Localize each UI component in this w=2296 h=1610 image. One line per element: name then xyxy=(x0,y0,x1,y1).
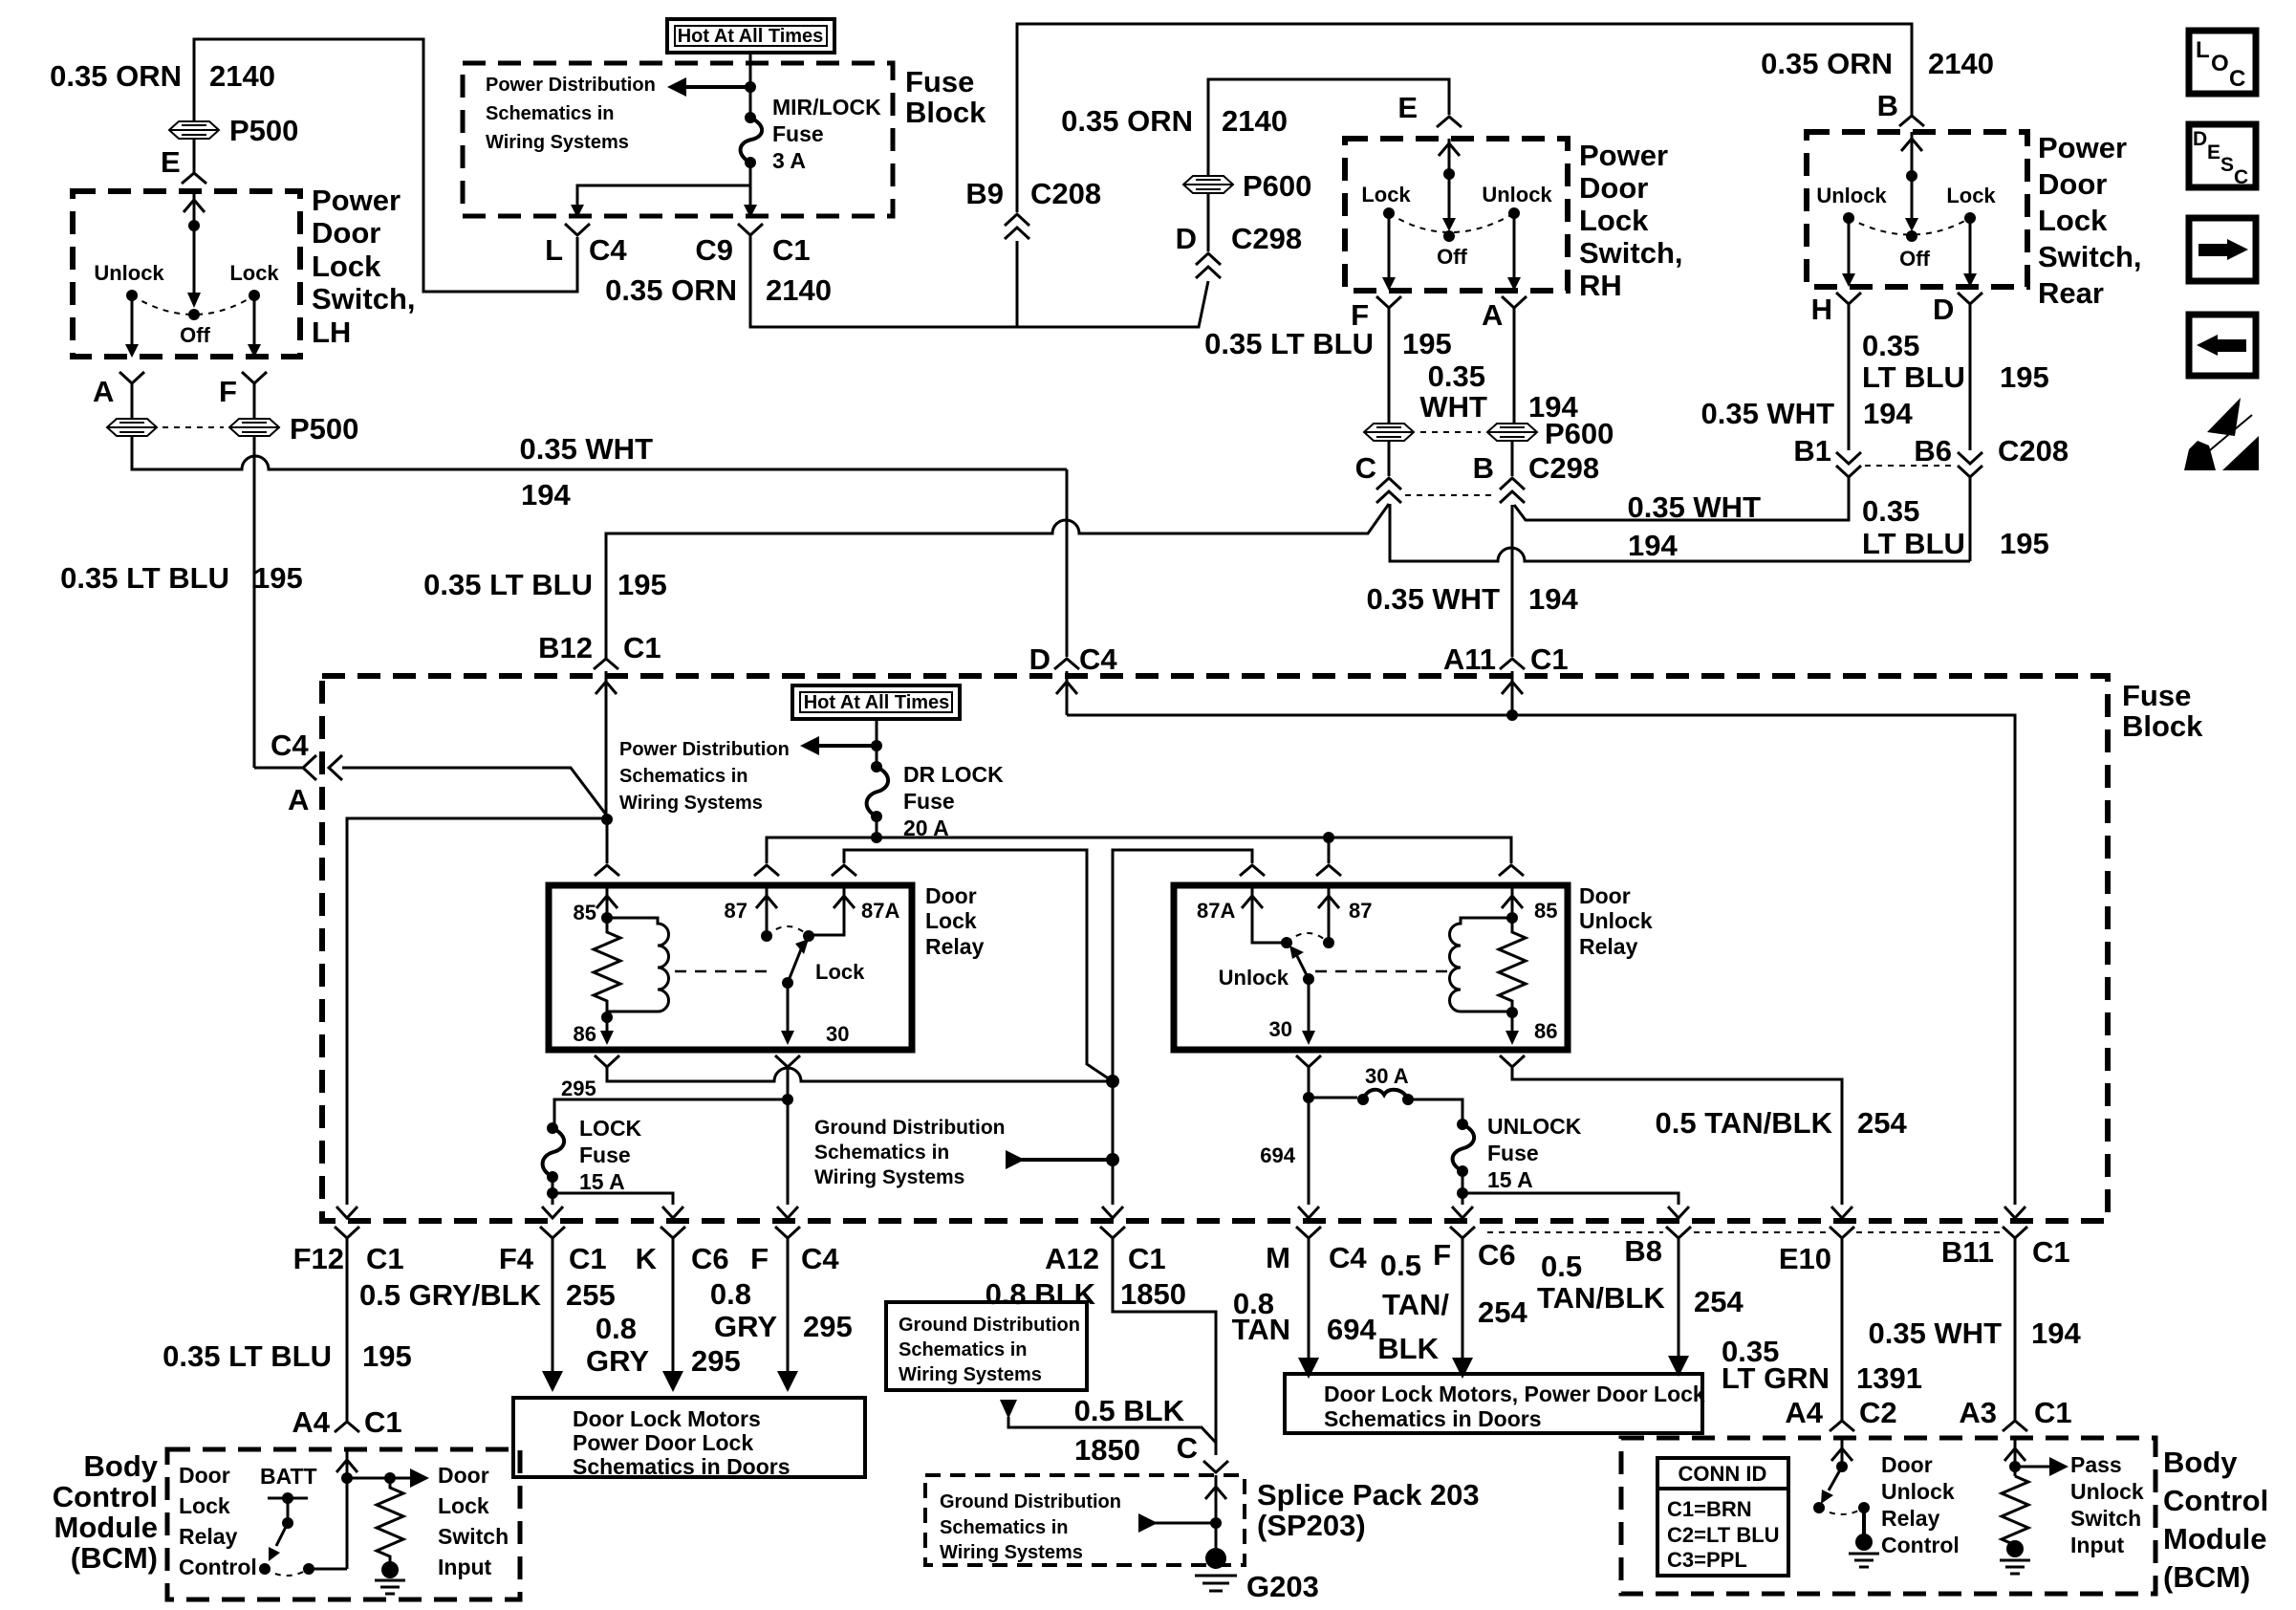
connector double chevron B9/C208 xyxy=(1005,214,1029,239)
svg-text:LT GRN: LT GRN xyxy=(1722,1361,1830,1395)
svg-text:Power: Power xyxy=(2038,131,2127,164)
connector chevron C9/C1 xyxy=(738,224,763,235)
fuse block (upper) dashed box xyxy=(463,63,893,216)
connector chevron B12/C1 xyxy=(594,659,618,669)
connector chevron A11/C1 xyxy=(1500,659,1525,669)
svg-text:Control: Control xyxy=(2163,1484,2268,1517)
svg-text:194: 194 xyxy=(1628,529,1678,562)
svg-text:0.5 GRY/BLK: 0.5 GRY/BLK xyxy=(359,1278,542,1312)
svg-text:2140: 2140 xyxy=(766,273,832,307)
wire D down to B6 xyxy=(1969,304,1972,450)
svg-text:A: A xyxy=(288,783,309,816)
dashed throw arc rear xyxy=(1849,218,1970,235)
CONN ID table xyxy=(1657,1458,1788,1576)
inline connector P500 (A) xyxy=(107,419,157,436)
wire into RH switch xyxy=(1439,139,1460,224)
inline connector P600 (B) xyxy=(1487,424,1537,441)
svg-text:G203: G203 xyxy=(1246,1570,1319,1603)
wire from Hot box down xyxy=(749,53,752,118)
svg-text:Door: Door xyxy=(2038,167,2107,201)
svg-text:295: 295 xyxy=(561,1077,596,1100)
svg-text:F: F xyxy=(750,1242,769,1275)
arrow down at box edge (C1) xyxy=(744,205,757,218)
svg-text:0.35 LT BLU: 0.35 LT BLU xyxy=(1204,327,1374,360)
junction on rail at A11 xyxy=(1506,709,1518,721)
svg-text:0.35 WHT: 0.35 WHT xyxy=(1868,1316,2002,1350)
svg-text:Splice Pack 203: Splice Pack 203 xyxy=(1257,1478,1480,1512)
node Unlock (rear) xyxy=(1843,212,1854,224)
inline connector P500 (top) xyxy=(169,121,219,139)
coil (lock relay) xyxy=(607,918,669,1017)
svg-text:Hot At All Times: Hot At All Times xyxy=(678,26,824,47)
svg-text:D: D xyxy=(1176,222,1197,255)
svg-text:D: D xyxy=(2193,128,2207,150)
LH door lock switch box (dashed) xyxy=(73,191,300,357)
wire A4 into BCM right xyxy=(1831,1438,1852,1467)
Door Lock Relay box xyxy=(549,885,912,1050)
fuse UNLOCK 15 A xyxy=(1457,1119,1468,1130)
wire B9 branch up to top rail xyxy=(1017,24,1912,327)
svg-text:0.35 LT BLU: 0.35 LT BLU xyxy=(423,568,593,601)
svg-text:C: C xyxy=(1177,1431,1198,1465)
svg-text:194: 194 xyxy=(1528,582,1578,616)
connector chevron F (RH) xyxy=(1376,296,1401,308)
thin dashed connector row line xyxy=(1487,1231,2002,1233)
svg-text:C1: C1 xyxy=(569,1242,607,1275)
pin 86 exit arrow xyxy=(606,1017,609,1031)
svg-text:F: F xyxy=(219,375,237,408)
svg-text:2140: 2140 xyxy=(1222,104,1288,138)
entry arrow below edge xyxy=(1056,671,1077,715)
node Unlock xyxy=(126,290,138,301)
pin 85 entry xyxy=(596,885,617,918)
svg-text:C1=BRN: C1=BRN xyxy=(1667,1497,1752,1521)
arrow inside splice pack xyxy=(1154,1522,1216,1525)
wire D up through P600 to RH switch E xyxy=(1208,79,1449,251)
pin 30 chevron below lock relay xyxy=(775,1055,800,1067)
pin 30 exit (unlock) xyxy=(1308,979,1310,1031)
dashed link between P600 halves xyxy=(1420,431,1481,433)
svg-text:Ground Distribution: Ground Distribution xyxy=(940,1491,1121,1512)
svg-text:255: 255 xyxy=(566,1278,616,1312)
svg-text:A3: A3 xyxy=(1959,1396,1997,1429)
wire A11/C1: RH-A wire down into fuse block xyxy=(1511,505,1514,657)
junction xyxy=(745,81,756,93)
87A tie rail (unlock side) xyxy=(1113,850,1252,1081)
wire ORN 2140 from C1 down-right toward B9 and D xyxy=(750,235,1208,327)
pin 85 chevron xyxy=(595,865,619,876)
svg-text:Rear: Rear xyxy=(2038,276,2104,310)
wire LT BLU 195: B12 up and right to C (C298) with hop over D/C4 wire xyxy=(606,504,1389,659)
svg-text:RH: RH xyxy=(1579,269,1622,302)
resistor to ground (BCM right) xyxy=(2002,1476,2028,1549)
svg-text:E: E xyxy=(1397,91,1418,124)
svg-text:2140: 2140 xyxy=(209,59,275,93)
wire 86 to ground node with hop over 30 wire xyxy=(607,1067,1113,1081)
svg-text:K: K xyxy=(636,1242,658,1275)
Door Lock Motors box (left) xyxy=(513,1398,865,1477)
svg-text:Door: Door xyxy=(312,216,380,250)
unlock relay pin 86 chevron below xyxy=(1500,1055,1525,1067)
svg-text:Module: Module xyxy=(54,1511,159,1544)
svg-text:WHT: WHT xyxy=(1419,390,1487,424)
svg-text:C2: C2 xyxy=(1859,1396,1897,1429)
wire D/C4: LH-A feed down into fuse block xyxy=(1066,469,1069,657)
svg-text:A4: A4 xyxy=(1785,1396,1823,1429)
connector chevron H xyxy=(1836,293,1861,304)
Hot At All Times box (top) xyxy=(667,19,834,53)
wire contact to A4 line xyxy=(309,1568,347,1571)
svg-text:F: F xyxy=(1433,1238,1451,1272)
svg-text:L: L xyxy=(545,233,563,267)
branch to pass unlock switch input xyxy=(2015,1466,2051,1469)
wire B8 down xyxy=(1678,1238,1680,1356)
svg-text:P600: P600 xyxy=(1545,417,1614,450)
coil (unlock relay) xyxy=(1450,918,1513,1012)
svg-text:30 A: 30 A xyxy=(1365,1064,1409,1088)
svg-text:Ground Distribution: Ground Distribution xyxy=(814,1117,1005,1139)
svg-text:Wiring Systems: Wiring Systems xyxy=(899,1364,1042,1385)
fuse block (main) dashed box xyxy=(322,676,2108,1221)
svg-text:LH: LH xyxy=(312,315,351,349)
svg-text:Fuse: Fuse xyxy=(1487,1141,1539,1165)
svg-text:C1: C1 xyxy=(1128,1242,1166,1275)
svg-text:Switch,: Switch, xyxy=(1579,236,1683,270)
svg-text:Fuse: Fuse xyxy=(772,121,824,146)
svg-text:694: 694 xyxy=(1260,1143,1295,1167)
svg-text:C4: C4 xyxy=(271,729,309,762)
wire A3 into BCM right xyxy=(2004,1438,2025,1476)
svg-text:Wiring Systems: Wiring Systems xyxy=(486,132,629,153)
svg-text:A12: A12 xyxy=(1045,1242,1099,1275)
svg-text:Block: Block xyxy=(905,96,986,129)
svg-text:TAN/: TAN/ xyxy=(1382,1288,1449,1321)
pin 87 entry xyxy=(1318,885,1339,943)
svg-text:C2=LT BLU: C2=LT BLU xyxy=(1667,1523,1780,1547)
wire A4 into BCM xyxy=(336,1449,357,1569)
svg-text:15 A: 15 A xyxy=(1487,1167,1533,1192)
svg-text:0.35 WHT: 0.35 WHT xyxy=(1627,490,1761,524)
svg-text:Unlock: Unlock xyxy=(1816,184,1887,207)
svg-text:Power: Power xyxy=(312,184,401,217)
fuse MIR/LOCK 3A xyxy=(745,112,756,123)
boxed note Ground Distribution xyxy=(886,1302,1087,1390)
wires M and F to door lock motors box (right) xyxy=(1308,1238,1310,1358)
svg-text:Fuse: Fuse xyxy=(903,789,955,814)
wire 30 down to M with 30A fuse branch xyxy=(1308,1067,1310,1205)
svg-text:0.35 ORN: 0.35 ORN xyxy=(605,273,737,307)
svg-text:A4: A4 xyxy=(292,1405,330,1439)
svg-text:C208: C208 xyxy=(1030,177,1101,210)
wire RH A down to P600 B xyxy=(1512,308,1514,476)
svg-text:Relay: Relay xyxy=(179,1524,238,1549)
pin 87A chevron (unlock) xyxy=(1240,865,1265,876)
svg-text:D: D xyxy=(1029,642,1051,676)
svg-text:F12: F12 xyxy=(293,1242,344,1275)
svg-text:Fuse: Fuse xyxy=(2122,679,2191,712)
node: lock relay control junction xyxy=(601,814,613,825)
svg-text:B8: B8 xyxy=(1624,1234,1662,1268)
svg-text:0.5 TAN/BLK: 0.5 TAN/BLK xyxy=(1656,1106,1833,1140)
wire Unlock contact down xyxy=(131,295,134,344)
svg-text:0.5: 0.5 xyxy=(1541,1250,1582,1283)
svg-text:Unlock: Unlock xyxy=(1219,966,1289,990)
svg-text:O: O xyxy=(2211,51,2229,76)
svg-text:L: L xyxy=(2196,37,2210,63)
svg-text:Lock: Lock xyxy=(1579,204,1649,237)
wire into switch with entry arrow xyxy=(184,191,205,302)
svg-text:S: S xyxy=(2220,154,2234,176)
connector chevron A (RH) xyxy=(1502,296,1527,308)
svg-text:Switch,: Switch, xyxy=(312,282,416,315)
wire WHT 194 from A: down then right with hop over F wire xyxy=(132,437,1067,469)
arrow down at box edge (L) xyxy=(571,205,584,218)
exit arrows at fuse block bottom xyxy=(336,1207,357,1218)
dashed connector line C298 xyxy=(1405,494,1496,496)
svg-text:Body: Body xyxy=(84,1449,159,1483)
node Lock xyxy=(249,290,260,301)
svg-text:Unlock: Unlock xyxy=(1579,908,1653,933)
ground node A12 xyxy=(1106,1075,1119,1088)
connector chevron A4/C1 (BCM) xyxy=(335,1422,359,1432)
svg-text:C298: C298 xyxy=(1528,451,1599,485)
svg-text:LT BLU: LT BLU xyxy=(1862,360,1965,394)
ground symbol xyxy=(381,1561,399,1578)
inline connector P600 (C) xyxy=(1364,424,1414,441)
svg-text:Lock: Lock xyxy=(1361,183,1411,207)
wire B11 to BCM A3 xyxy=(2014,1238,2017,1420)
svg-text:GRY: GRY xyxy=(714,1310,777,1343)
pin 87A entry to switch xyxy=(809,885,855,935)
node Unlock (RH) xyxy=(1508,207,1520,219)
pin 87 chevron (unlock) xyxy=(1316,865,1341,876)
node Off (rear) xyxy=(1906,230,1917,242)
svg-text:MIR/LOCK: MIR/LOCK xyxy=(772,95,881,120)
arrow from note to 0.5 BLK wire xyxy=(1000,1400,1017,1419)
svg-text:0.35 ORN: 0.35 ORN xyxy=(1761,47,1893,80)
dashed actuation line xyxy=(675,970,774,973)
wire node left and down to F12 xyxy=(347,818,607,1205)
connector chevron A4/C2 xyxy=(1830,1421,1854,1431)
svg-text:194: 194 xyxy=(1863,397,1913,430)
wire from Hot box 2 down xyxy=(876,719,878,767)
svg-text:B6: B6 xyxy=(1914,434,1952,468)
svg-text:Ground Distribution: Ground Distribution xyxy=(899,1315,1080,1336)
wire E10 to BCM A4 xyxy=(1841,1238,1844,1420)
svg-text:C4: C4 xyxy=(801,1242,839,1275)
svg-text:A: A xyxy=(93,375,114,408)
svg-text:Power: Power xyxy=(1579,139,1668,172)
connector chevron F xyxy=(242,372,267,383)
svg-text:Door: Door xyxy=(438,1463,489,1488)
Hot At All Times box (lower) xyxy=(792,685,960,719)
svg-text:Lock: Lock xyxy=(438,1493,489,1518)
svg-text:B12: B12 xyxy=(538,631,593,664)
branch arrow to power distribution note xyxy=(817,744,877,748)
wire LOCK fuse output to F4 and K xyxy=(552,1177,673,1205)
svg-text:3 A: 3 A xyxy=(772,148,806,173)
svg-text:0.35 LT BLU: 0.35 LT BLU xyxy=(162,1339,332,1373)
svg-text:Schematics in: Schematics in xyxy=(619,766,748,787)
svg-text:C6: C6 xyxy=(691,1242,729,1275)
sidebar right-arrow box xyxy=(2189,218,2256,281)
svg-text:194: 194 xyxy=(521,478,571,511)
dashed throw arc (unlock) xyxy=(1287,933,1329,943)
connector chevron L/C4 xyxy=(565,224,590,235)
svg-text:194: 194 xyxy=(2031,1316,2081,1350)
wire B1 down-left to B/C298 xyxy=(1514,477,1849,520)
svg-text:P600: P600 xyxy=(1243,169,1311,203)
svg-text:Door: Door xyxy=(1579,883,1631,908)
svg-text:BLK: BLK xyxy=(1377,1332,1439,1365)
wire Lock contact down xyxy=(253,295,256,344)
feed rail to relay pins 87/85 xyxy=(767,838,1511,863)
wire B6 down to LT BLU rail xyxy=(1969,477,1972,561)
svg-text:87A: 87A xyxy=(861,899,899,923)
svg-text:0.35 WHT: 0.35 WHT xyxy=(1366,582,1500,616)
svg-text:15 A: 15 A xyxy=(579,1169,625,1194)
svg-text:Schematics in Doors: Schematics in Doors xyxy=(573,1454,791,1479)
wire A12 to splice pack C xyxy=(1113,1238,1216,1455)
Door Lock Motors box (right) xyxy=(1285,1374,1702,1433)
svg-text:30: 30 xyxy=(826,1022,849,1046)
BCM box (left) xyxy=(167,1449,520,1599)
wire A12 ground drop xyxy=(1112,1081,1115,1205)
svg-text:0.35: 0.35 xyxy=(1862,329,1919,362)
svg-text:0.35 ORN: 0.35 ORN xyxy=(50,59,182,93)
svg-text:0.8: 0.8 xyxy=(710,1277,751,1311)
pin 87 chevron xyxy=(754,865,779,876)
coil node top/bottom xyxy=(601,912,613,924)
svg-text:Unlock: Unlock xyxy=(1881,1479,1955,1504)
svg-text:TAN/BLK: TAN/BLK xyxy=(1537,1281,1665,1315)
wire LT BLU 195 from F down xyxy=(253,437,256,768)
connector double chevron B6 xyxy=(1958,452,1982,477)
svg-text:Unlock: Unlock xyxy=(2070,1479,2144,1504)
87A tie rail (lock side) xyxy=(844,850,1113,1081)
svg-text:Hot At All Times: Hot At All Times xyxy=(804,692,950,713)
svg-text:195: 195 xyxy=(362,1339,412,1373)
svg-text:P500: P500 xyxy=(290,412,358,446)
svg-text:Unlock: Unlock xyxy=(94,261,164,285)
resistor to ground (BCM left) xyxy=(377,1478,403,1562)
dashed link between P500 halves xyxy=(162,426,224,428)
wire 30 down through F/C4 xyxy=(787,1067,790,1205)
svg-text:Schematics in: Schematics in xyxy=(899,1339,1028,1360)
svg-text:254: 254 xyxy=(1694,1285,1744,1318)
wire segment below P500 to E connector xyxy=(193,140,196,173)
svg-text:295: 295 xyxy=(691,1344,741,1378)
sidebar LOC box xyxy=(2189,31,2256,94)
wires to door lock motors box (left) xyxy=(346,1238,349,1421)
wire into rear switch xyxy=(1901,132,1922,224)
switch blade (lock relay) xyxy=(788,949,801,983)
svg-text:Wiring Systems: Wiring Systems xyxy=(619,793,763,814)
svg-text:0.5: 0.5 xyxy=(1380,1249,1421,1282)
wire RH Lock contact down xyxy=(1388,213,1391,277)
entry arrow below edge xyxy=(1502,671,1523,713)
svg-text:A: A xyxy=(1482,298,1503,332)
svg-text:C: C xyxy=(1355,451,1376,485)
connector chevron D/C4 (fuse block top) xyxy=(1054,659,1079,669)
dashed throw arc xyxy=(265,1569,309,1576)
node Lock (rear) xyxy=(1964,212,1976,224)
svg-text:C: C xyxy=(2229,66,2245,92)
svg-text:Schematics in: Schematics in xyxy=(814,1142,949,1164)
svg-text:254: 254 xyxy=(1478,1295,1527,1329)
svg-text:Relay: Relay xyxy=(1579,934,1638,959)
connector double chevron B (C298) xyxy=(1500,478,1525,503)
svg-text:LT BLU: LT BLU xyxy=(1862,527,1965,560)
connector chevron E (RH) xyxy=(1437,117,1462,127)
svg-text:Power Distribution: Power Distribution xyxy=(486,75,656,96)
svg-text:TAN: TAN xyxy=(1232,1313,1290,1346)
fuse 30 A xyxy=(1309,1097,1357,1099)
svg-text:C1: C1 xyxy=(2032,1235,2070,1269)
wire into fuse block C4/A with connector chevrons xyxy=(254,768,609,818)
svg-text:DR LOCK: DR LOCK xyxy=(903,762,1004,787)
sidebar DESC box xyxy=(2189,124,2256,187)
relay blade (door unlock relay control) xyxy=(1829,1467,1842,1490)
svg-text:Input: Input xyxy=(2070,1533,2125,1557)
svg-text:Switch: Switch xyxy=(438,1524,509,1549)
svg-text:Door: Door xyxy=(1881,1452,1933,1477)
connector chevron B (rear) xyxy=(1899,116,1924,126)
svg-text:0.5 BLK: 0.5 BLK xyxy=(1074,1394,1185,1427)
svg-text:Control: Control xyxy=(53,1480,158,1513)
svg-text:BATT: BATT xyxy=(260,1464,317,1489)
svg-text:LOCK: LOCK xyxy=(579,1116,642,1141)
ground G203 xyxy=(1205,1548,1226,1569)
svg-text:Fuse: Fuse xyxy=(579,1142,631,1167)
svg-text:Lock: Lock xyxy=(815,960,865,984)
svg-text:C: C xyxy=(2234,166,2248,188)
svg-text:C3=PPL: C3=PPL xyxy=(1667,1548,1747,1572)
pin 87A entry xyxy=(1242,885,1287,943)
svg-text:Door Lock Motors: Door Lock Motors xyxy=(573,1406,761,1431)
svg-text:C9: C9 xyxy=(695,233,733,267)
svg-text:C4: C4 xyxy=(1079,642,1117,676)
resistor (unlock relay) xyxy=(1499,918,1526,1012)
connector chevron C (splice pack) xyxy=(1203,1461,1228,1472)
svg-text:B9: B9 xyxy=(965,177,1004,210)
wire ORN 2140 feed: fuse block L/C4 to LH switch E xyxy=(194,39,577,292)
svg-text:86: 86 xyxy=(574,1022,596,1046)
svg-text:Lock: Lock xyxy=(179,1493,230,1518)
svg-text:0.8: 0.8 xyxy=(596,1312,637,1345)
svg-text:H: H xyxy=(1811,293,1832,326)
wire A to P500 xyxy=(131,383,134,418)
pin 85 chevron (unlock) xyxy=(1499,865,1524,876)
svg-text:(BCM): (BCM) xyxy=(2163,1560,2250,1594)
branch to door lock switch input xyxy=(347,1477,412,1480)
svg-text:0.35 WHT: 0.35 WHT xyxy=(519,432,653,466)
svg-text:87: 87 xyxy=(1349,899,1372,923)
Door Unlock Relay box xyxy=(1174,885,1568,1050)
svg-text:Schematics in: Schematics in xyxy=(940,1517,1069,1538)
connector chevron D xyxy=(1958,293,1982,304)
svg-text:C1: C1 xyxy=(623,631,661,664)
svg-text:Lock: Lock xyxy=(229,261,279,285)
svg-text:A11: A11 xyxy=(1443,642,1496,676)
svg-text:GRY: GRY xyxy=(586,1344,649,1378)
connector double chevron B1 xyxy=(1836,452,1861,477)
svg-text:0.8 BLK: 0.8 BLK xyxy=(986,1277,1096,1311)
LOCK fuse branch xyxy=(554,1099,788,1126)
svg-text:(BCM): (BCM) xyxy=(71,1541,158,1575)
wire UNLOCK fuse output to F/C6 and B8 xyxy=(1462,1171,1679,1205)
connector chevrons below fuse block xyxy=(335,1227,359,1238)
